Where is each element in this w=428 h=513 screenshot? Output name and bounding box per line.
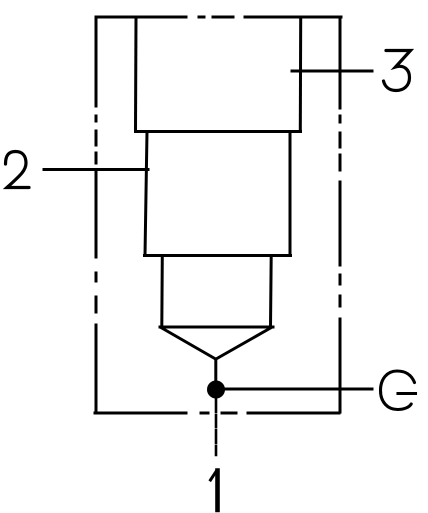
body lower block left edge <box>160 256 164 328</box>
case boundary right edge (dash-dot) <box>339 17 342 412</box>
tip stem wire <box>214 359 217 381</box>
node G (filled junction dot) <box>207 381 225 399</box>
label 2 <box>6 152 30 188</box>
label 3 <box>384 51 411 91</box>
case boundary top edge (dash-dot) <box>96 16 341 19</box>
body upper block left edge <box>134 17 138 131</box>
cone left slope <box>162 328 216 359</box>
leader wire to label 2 <box>44 168 148 171</box>
cone right slope <box>216 328 271 359</box>
case boundary left edge (dash-dot) <box>95 17 98 412</box>
body shoulder 1 <box>136 130 301 133</box>
case boundary bottom edge (dash-dot) <box>95 412 339 415</box>
cone top line <box>160 326 273 329</box>
body lower block right edge <box>269 256 273 328</box>
leader wire to label 3 <box>292 70 372 73</box>
label 1 <box>211 471 218 511</box>
body upper block right edge <box>299 17 302 131</box>
leader wire to label 1 (broken) <box>215 399 218 455</box>
body shoulder 2 <box>145 254 291 257</box>
body middle block right edge <box>289 132 292 256</box>
body middle block left edge <box>145 132 147 256</box>
leader wire to G label <box>225 388 372 391</box>
label G <box>381 371 416 410</box>
